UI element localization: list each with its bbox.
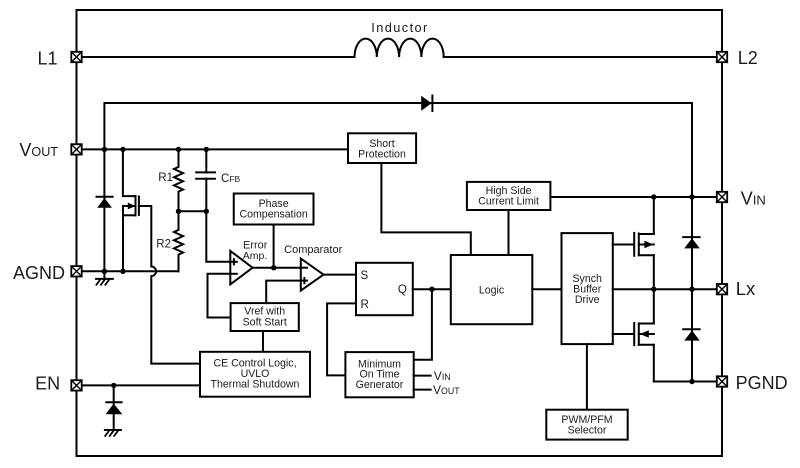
svg-text:Compensation: Compensation	[239, 208, 307, 220]
svg-text:L2: L2	[738, 48, 758, 68]
wire Synch to bottom MOSFET gate	[613, 333, 633, 335]
svg-text:Lx: Lx	[736, 278, 756, 299]
wire Phase Compensation to error amp output	[273, 225, 275, 268]
wire error amp output to comparator	[253, 267, 301, 269]
pin VOUT	[71, 144, 81, 154]
svg-text:VOUT: VOUT	[433, 383, 460, 397]
svg-text:VOUT: VOUT	[19, 140, 58, 160]
error amp label	[243, 240, 268, 263]
resistor R2	[174, 211, 183, 271]
wire Q node down to Minimum On Time	[414, 289, 432, 360]
wire VOUT row	[77, 148, 349, 150]
svg-text:CFB: CFB	[221, 173, 241, 185]
wire Short Protection to Logic	[381, 163, 470, 255]
wire PGND row	[654, 381, 722, 383]
wire L1 to inductor	[77, 56, 355, 58]
pin L2	[717, 52, 727, 62]
wire Vref to comparator + input	[266, 281, 301, 304]
svg-text:Generator: Generator	[356, 379, 404, 391]
MOSFET Q1 (left PMOS)	[123, 196, 139, 271]
pin L1	[71, 52, 81, 62]
body diode D2	[683, 197, 700, 289]
resistor R1	[174, 149, 183, 211]
svg-text:R2: R2	[156, 239, 171, 251]
pin AGND	[71, 266, 81, 276]
Short Protection box	[348, 133, 416, 163]
wire Vref to CE control	[262, 331, 264, 352]
VOUT stub of Minimum On Time	[414, 389, 431, 391]
svg-text:AGND: AGND	[13, 263, 65, 283]
Phase Compensation box	[234, 194, 314, 225]
ESD diode at EN	[106, 385, 123, 429]
wire Q to Logic	[413, 288, 451, 290]
ESD diode to AGND	[97, 197, 113, 208]
pin PGND	[717, 376, 727, 386]
wire Synch to PWM/PFM Selector	[586, 344, 588, 410]
inductor	[355, 39, 444, 57]
svg-text:Comparator: Comparator	[284, 244, 342, 256]
svg-text:Current Limit: Current Limit	[478, 195, 539, 207]
diode D1 on diode row	[421, 96, 432, 112]
wire VIN row	[550, 196, 722, 198]
svg-text:Protection: Protection	[358, 149, 406, 161]
svg-text:VIN: VIN	[741, 189, 766, 209]
wire comparator output to S	[324, 274, 357, 276]
wire Logic to Synch Buffer	[532, 288, 561, 290]
VIN stub of Minimum On Time	[414, 375, 431, 377]
CE Control Logic box	[200, 352, 310, 397]
wire R input from Minimum On Time	[327, 303, 356, 375]
svg-text:R1: R1	[158, 172, 173, 184]
SR latch	[356, 263, 413, 315]
error amp U1	[230, 251, 252, 285]
High Side Current Limit box	[467, 182, 551, 210]
svg-text:Logic: Logic	[479, 285, 505, 297]
ground at EN diode	[105, 430, 121, 436]
wire High Side to Logic	[508, 210, 510, 255]
comparator U2	[301, 259, 324, 291]
MOSFET Q1 drain wire from VOUT	[123, 149, 136, 196]
svg-text:Thermal Shutdown: Thermal Shutdown	[211, 379, 300, 391]
svg-text:R: R	[361, 298, 369, 311]
pin Lx	[717, 284, 727, 294]
Vref with Soft Start box	[231, 303, 299, 331]
IC boundary	[77, 10, 723, 456]
wire FB junction to error amp + input	[179, 211, 231, 261]
body diode D3	[683, 289, 700, 381]
wire error amp lower input to Vref	[208, 274, 231, 318]
Minimum On Time Generator box	[345, 352, 413, 397]
svg-text:Q: Q	[398, 283, 407, 296]
bottom MOSFET Q3	[634, 289, 654, 381]
svg-text:Selector: Selector	[568, 425, 607, 437]
svg-text:EN: EN	[35, 373, 60, 393]
vertical VOUT to AGND with ESD diode	[103, 149, 105, 271]
top MOSFET Q2	[634, 197, 654, 289]
wire inductor to L2	[444, 56, 722, 58]
wire Synch to top MOSFET gate	[613, 244, 633, 246]
svg-text:S: S	[361, 269, 369, 282]
wire AGND row	[77, 270, 179, 272]
capacitor CFB	[196, 149, 215, 211]
Logic box	[451, 255, 533, 324]
svg-text:Soft Start: Soft Start	[243, 316, 287, 328]
svg-text:PGND: PGND	[736, 373, 788, 393]
wire VOUT node up and across diode row to VIN	[104, 103, 692, 197]
Synch Buffer Drive box	[562, 233, 613, 344]
pin VIN	[717, 192, 727, 202]
svg-text:Inductor: Inductor	[371, 20, 428, 35]
svg-text:Amp.: Amp.	[243, 250, 268, 262]
wire Q1 gate to CE control with hop over AGND	[139, 206, 200, 364]
PWM/PFM Selector box	[546, 410, 627, 440]
svg-text:VIN: VIN	[434, 369, 451, 383]
pin EN	[71, 380, 81, 390]
svg-text:Drive: Drive	[575, 294, 600, 306]
wire EN row	[77, 384, 201, 386]
wire Lx row	[613, 288, 722, 290]
ground at AGND	[96, 271, 113, 285]
svg-text:L1: L1	[37, 48, 57, 68]
